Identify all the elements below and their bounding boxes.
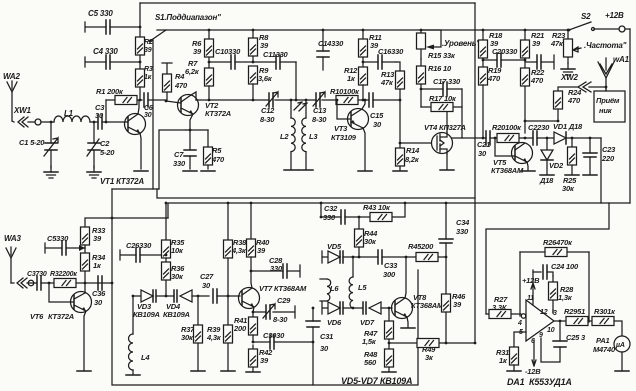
resistor R21 39	[521, 29, 545, 60]
capacitor C21 30	[477, 131, 490, 158]
svg-text:C21: C21	[477, 140, 490, 149]
node dot VD3 VD4	[165, 295, 168, 298]
wire pin12 R28	[552, 310, 554, 313]
svg-text:1,5к: 1,5к	[362, 337, 377, 346]
inductor L2	[280, 99, 295, 169]
capacitor C11 330	[253, 50, 296, 69]
svg-text:1,3к: 1,3к	[558, 293, 573, 302]
svg-text:М4740: М4740	[593, 345, 616, 354]
wire y218 to R33	[85, 218, 168, 227]
capacitor C13 8-30	[312, 92, 327, 124]
svg-text:C7: C7	[174, 150, 184, 159]
svg-text:8-30: 8-30	[312, 115, 327, 124]
svg-text:39: 39	[532, 39, 541, 48]
svg-text:VT4 КП327А: VT4 КП327А	[424, 123, 466, 132]
ground R5	[201, 170, 215, 172]
switch S2	[568, 12, 619, 31]
resistor R7 6,2k	[185, 59, 214, 101]
varicap VD3 KV109A	[133, 290, 166, 319]
node dot R3 bottom	[139, 99, 142, 102]
capacitor C29 8-30	[252, 296, 295, 324]
resistor R10 100k	[330, 87, 365, 105]
resistor R47 1,5k	[362, 308, 394, 346]
wire S1 select down	[152, 40, 154, 189]
svg-text:C36: C36	[92, 289, 106, 298]
ground R14	[393, 170, 407, 172]
resistor R28 1,3k	[549, 276, 575, 313]
svg-text:.Частота": .Частота"	[584, 41, 627, 50]
resistor R24 470	[554, 87, 583, 121]
resistor R20 100k	[492, 123, 526, 143]
wire VT3 emitter to ground	[363, 128, 365, 170]
svg-text:R2951: R2951	[564, 307, 585, 316]
wire C17 right drop	[461, 89, 463, 138]
svg-text:C2: C2	[100, 139, 110, 148]
svg-text:КТ368АМ: КТ368АМ	[491, 166, 524, 175]
node dot R47 R48	[388, 342, 391, 345]
svg-text:R15 33к: R15 33к	[428, 51, 456, 60]
svg-text:R26470к: R26470к	[543, 238, 573, 247]
capacitor C30 30	[253, 331, 313, 349]
svg-text:C10330: C10330	[215, 47, 241, 56]
svg-text:КВ109А: КВ109А	[163, 310, 190, 319]
node dot R8 R9	[252, 61, 255, 64]
node dot R34 bottom	[84, 282, 87, 285]
svg-text:КТ372А: КТ372А	[205, 109, 231, 118]
tuning arrows L2 L3	[294, 102, 307, 111]
wire output node	[554, 320, 568, 322]
wire pin5 R31	[514, 332, 526, 347]
svg-text:39: 39	[260, 356, 269, 365]
resistor R41 200	[233, 316, 258, 342]
label Уровень	[442, 39, 480, 48]
transistor VT4 KP327A	[424, 123, 466, 154]
svg-text:470: 470	[530, 76, 544, 85]
svg-text:µА: µА	[615, 342, 625, 349]
svg-text:VT1 КТ372А: VT1 КТ372А	[100, 177, 144, 186]
wire VT2 emitter down	[159, 130, 186, 189]
svg-text:R45200: R45200	[408, 242, 434, 251]
svg-text:XW2: XW2	[560, 73, 578, 82]
wire rail to opamp input	[486, 203, 609, 314]
resistor R6 39	[192, 29, 214, 68]
wire VT8 emitter ground	[407, 317, 408, 327]
svg-text:L5: L5	[358, 283, 367, 292]
svg-text:30к: 30к	[364, 237, 377, 246]
svg-text:5-20: 5-20	[100, 148, 115, 157]
wire VT3 collector	[362, 100, 365, 109]
svg-text:30: 30	[94, 298, 103, 307]
capacitor C17 330	[420, 77, 462, 96]
resistor R18 39	[479, 29, 504, 67]
resistor R14 8,2k	[396, 142, 421, 170]
connector XW2	[560, 73, 607, 92]
capacitor C24 100	[543, 262, 579, 279]
resistor R1 200k	[96, 87, 142, 105]
svg-text:330: 330	[270, 264, 283, 273]
box receiver Приёмник	[594, 87, 625, 122]
svg-text:C14330: C14330	[318, 39, 344, 48]
capacitor C1 5-20	[19, 122, 58, 168]
wire to VT2 base	[166, 101, 181, 103]
capacitor C3 30	[95, 103, 128, 129]
resistor R48 560	[364, 343, 396, 372]
wire x601 up	[600, 138, 602, 203]
resistor R9 3,6k	[249, 66, 273, 101]
antenna WA2	[3, 72, 20, 121]
transistor VT3 KT3109	[331, 109, 369, 143]
transistor VT2 KT372A	[178, 95, 232, 119]
svg-text:470: 470	[174, 81, 188, 90]
transistor VT8 KT368AM	[392, 293, 445, 319]
resistor R40 39	[247, 238, 271, 271]
svg-text:S2: S2	[581, 12, 591, 21]
capacitor C23 220	[583, 137, 616, 175]
wire VT4 drain up	[446, 111, 448, 132]
svg-text:4,3к: 4,3к	[231, 246, 247, 255]
wire C11 down	[295, 62, 297, 100]
svg-text:8,2к: 8,2к	[405, 155, 420, 164]
wire input	[28, 121, 54, 123]
ground C7	[183, 170, 197, 172]
resistor R49 3k	[389, 339, 476, 363]
svg-text:4,3к: 4,3к	[206, 333, 222, 342]
node dot C5	[139, 26, 142, 29]
svg-text:12: 12	[540, 309, 548, 316]
resistor R16 10	[417, 59, 453, 107]
resistor R5 470	[204, 130, 225, 169]
svg-text:3,6к: 3,6к	[258, 74, 273, 83]
svg-text:470: 470	[487, 74, 501, 83]
node dot box entry	[111, 282, 114, 285]
svg-text:30к: 30к	[171, 272, 184, 281]
node dot VT2 emitter	[189, 129, 192, 132]
svg-text:L4: L4	[141, 353, 150, 362]
svg-text:39: 39	[453, 300, 462, 309]
resistor R3 1k	[136, 66, 153, 87]
svg-text:C1 5-20: C1 5-20	[19, 138, 45, 147]
svg-text:39: 39	[144, 47, 152, 54]
svg-text:L2: L2	[280, 132, 289, 141]
resistor R37 30k	[181, 296, 205, 371]
wire left bias chain vertical	[139, 3, 141, 100]
svg-text:VD1 Д18: VD1 Д18	[553, 122, 583, 131]
svg-text:R10100к: R10100к	[330, 87, 360, 96]
node dot base tap	[48, 282, 51, 285]
wire VT5 emitter ground	[527, 162, 528, 170]
capacitor C20 330	[482, 47, 527, 67]
svg-text:VD5-VD7 КВ109А: VD5-VD7 КВ109А	[341, 376, 412, 386]
wire VT3 base	[337, 100, 351, 119]
resistor R38 4,3k	[224, 238, 248, 296]
svg-text:Д18: Д18	[539, 176, 554, 185]
svg-text:220: 220	[601, 154, 615, 163]
svg-text:.Уровень": .Уровень"	[442, 39, 480, 48]
wire rail drops into box	[166, 203, 251, 240]
svg-text:VD2: VD2	[549, 161, 564, 170]
capacitor C25 3	[541, 321, 586, 362]
svg-text:470: 470	[567, 96, 581, 105]
wire after L1	[90, 121, 98, 123]
svg-text:30: 30	[202, 281, 211, 290]
wire pin6 -12V	[525, 340, 541, 376]
svg-text:C15: C15	[370, 111, 384, 120]
resistor R25 30k	[562, 138, 579, 193]
svg-text:6,2к: 6,2к	[185, 67, 200, 76]
node dot R38 R39	[227, 295, 230, 298]
capacitor C36 30	[92, 276, 106, 307]
inductor L5	[349, 256, 367, 308]
svg-text:200: 200	[233, 324, 247, 333]
antenna WA1	[598, 55, 630, 91]
resistor R19 470	[479, 66, 503, 138]
wire to VT4 gate	[400, 100, 431, 143]
svg-text:R301к: R301к	[594, 307, 616, 316]
resistor R46 39	[442, 257, 467, 343]
wire y138 main	[452, 137, 601, 139]
ground C2	[87, 166, 101, 178]
capacitor C7 330	[173, 130, 196, 169]
wire VT6 base	[49, 283, 74, 302]
resistor R42 39	[246, 345, 273, 372]
svg-text:1к: 1к	[144, 74, 152, 81]
svg-text:-12В: -12В	[525, 367, 541, 376]
ground R23	[561, 63, 575, 75]
resistor R27 3,3k	[486, 295, 521, 319]
capacitor C34 330	[439, 202, 470, 257]
varicap VD4 KV109A	[163, 290, 209, 319]
svg-text:C27: C27	[200, 272, 214, 281]
svg-text:VD6: VD6	[327, 318, 342, 327]
svg-text:47к: 47к	[380, 78, 394, 87]
capacitor C16 330	[362, 47, 405, 69]
wire VT5 base	[495, 138, 515, 156]
terminal +12V	[605, 11, 630, 32]
capacitor C5 330 lower	[45, 234, 85, 255]
svg-text:R20100к: R20100к	[492, 123, 522, 132]
wire PLL box left/bottom/right	[112, 189, 418, 385]
ground L3	[299, 169, 313, 171]
svg-text:30: 30	[373, 120, 382, 129]
svg-text:C20330: C20330	[492, 47, 518, 56]
node dot R4 bottom	[165, 100, 168, 103]
wire VT1 collector	[138, 100, 139, 114]
svg-text:30к: 30к	[181, 333, 194, 342]
wire VT4 source ground	[446, 154, 448, 169]
capacitor C19 between dividers	[525, 55, 554, 69]
wire band-select bus	[157, 29, 569, 31]
node dot R41 R42	[252, 341, 255, 344]
svg-text:39: 39	[193, 47, 202, 56]
capacitor C32 330	[320, 202, 359, 224]
svg-text:10к: 10к	[171, 246, 184, 255]
resistor R12 1k	[344, 66, 368, 101]
node dot R6 R7	[208, 61, 211, 64]
wire main vertical x475	[474, 3, 476, 343]
inductor L6	[320, 279, 339, 301]
svg-text:VD5: VD5	[327, 242, 342, 251]
resistor R31 1k	[496, 347, 521, 371]
node dot C1 tap	[50, 121, 53, 124]
svg-text:DA1 К553УД1А: DA1 К553УД1А	[507, 377, 572, 387]
resistor R30 1k	[592, 307, 622, 336]
wire base node vertical	[105, 100, 107, 122]
resistor R17 10k	[421, 94, 462, 112]
capacitor C22 30	[528, 123, 550, 145]
transistor VT1 KT372A	[100, 114, 146, 187]
diode VD1 D18	[546, 122, 583, 144]
svg-text:R16 10: R16 10	[428, 64, 452, 73]
resistor R44 30k	[355, 217, 379, 257]
svg-text:C31: C31	[320, 332, 333, 341]
diode VD2 D18	[539, 138, 564, 185]
svg-text:Приём: Приём	[596, 96, 620, 105]
svg-text:4: 4	[517, 320, 522, 327]
capacitor C26 330	[120, 241, 166, 262]
svg-text:R14: R14	[406, 146, 420, 155]
capacitor C2 5-20	[87, 122, 115, 168]
svg-text:8-30: 8-30	[260, 115, 275, 124]
varicap VD5	[322, 242, 360, 263]
svg-text:С25 3: С25 3	[566, 333, 586, 342]
potentiometer R15 33k	[417, 29, 456, 60]
resistor R35 10k	[162, 238, 186, 258]
svg-text:XW1: XW1	[13, 106, 31, 115]
svg-text:330: 330	[173, 159, 186, 168]
svg-text:39: 39	[93, 234, 102, 243]
varicap VD7	[353, 302, 392, 327]
label DA1 K553UD1A	[507, 377, 572, 387]
svg-text:R5: R5	[212, 146, 222, 155]
resistor R43 10k	[358, 202, 407, 222]
switch S1	[149, 13, 222, 42]
svg-text:C26330: C26330	[126, 241, 152, 250]
potentiometer R23 47k	[550, 29, 581, 63]
capacitor C12 8-30	[260, 92, 278, 124]
svg-text:C2230: C2230	[528, 123, 550, 132]
resistor R11 39	[359, 29, 382, 67]
svg-text:S1.Поддиапазон": S1.Поддиапазон"	[155, 13, 221, 22]
svg-text:wА1: wА1	[613, 55, 630, 64]
resistor R22 470	[521, 60, 546, 121]
capacitor C31 30	[306, 307, 333, 385]
resistor R39 4,3k	[206, 296, 235, 371]
svg-text:30к: 30к	[562, 184, 575, 193]
capacitor C14 330	[317, 29, 344, 70]
capacitor C37 30	[27, 271, 49, 290]
wire collector line y100	[196, 99, 337, 101]
ground C1	[44, 166, 58, 178]
svg-text:C29: C29	[277, 296, 291, 305]
svg-text:C5 330: C5 330	[88, 9, 113, 18]
capacitor C33 300	[359, 250, 406, 279]
resistor R34 1k	[81, 248, 107, 283]
transistor VT7 KT368AM	[239, 284, 308, 309]
label Частота	[584, 41, 627, 50]
wire VT6 emitter down	[84, 311, 86, 370]
svg-text:R32200к: R32200к	[50, 271, 77, 278]
svg-text:L3: L3	[309, 132, 318, 141]
svg-text:VT3: VT3	[334, 124, 348, 133]
svg-text:300: 300	[383, 270, 396, 279]
wire feedback loop left	[519, 252, 521, 316]
node circle XW3	[28, 280, 34, 286]
resistor R13 47k	[380, 62, 405, 101]
svg-text:C24 100: C24 100	[551, 262, 579, 271]
wire y189 link	[112, 188, 159, 190]
svg-text:WA3: WA3	[4, 234, 21, 243]
svg-text:КВ109А: КВ109А	[133, 310, 160, 319]
ground VT1	[134, 170, 148, 172]
inductor L4	[126, 295, 150, 375]
svg-text:C23: C23	[602, 145, 616, 154]
svg-text:КТ3109: КТ3109	[331, 133, 357, 142]
connector XW3	[11, 278, 34, 288]
wire VT1 emitter to ground	[140, 133, 141, 169]
wire VT2 collector	[191, 92, 196, 100]
resistor R26 470k	[520, 238, 589, 257]
svg-text:39: 39	[257, 246, 266, 255]
svg-text:ник: ник	[599, 106, 613, 115]
transistor VT5 KT368AM	[491, 143, 533, 176]
svg-text:10: 10	[547, 327, 555, 334]
svg-text:VD7: VD7	[360, 318, 375, 327]
capacitor C5 330	[85, 9, 140, 34]
resistor R2 39	[136, 37, 153, 55]
svg-text:C33: C33	[384, 261, 398, 270]
wire rail1	[157, 189, 475, 198]
svg-text:+12В: +12В	[522, 276, 540, 285]
inductor L3	[302, 99, 319, 169]
wire VT7 emitter	[253, 307, 254, 317]
svg-text:30: 30	[478, 149, 487, 158]
node dot C4	[139, 61, 142, 64]
resistor R8 39	[249, 29, 270, 62]
resistor R32 200k	[49, 271, 112, 288]
antenna WA3	[4, 234, 21, 283]
resistor R29 51	[564, 307, 592, 326]
capacitor C10 330	[209, 47, 253, 69]
connector XW1	[12, 106, 31, 127]
svg-text:11: 11	[527, 295, 534, 302]
capacitor C4 330	[85, 47, 140, 69]
svg-text:47к: 47к	[550, 39, 564, 48]
svg-text:КТ372А: КТ372А	[48, 312, 74, 321]
transistor VT6 KT372A	[30, 292, 92, 322]
wire feedback loop right	[588, 252, 590, 322]
svg-text:WA2: WA2	[3, 72, 20, 81]
label VD5-VD7 KV109A	[341, 376, 412, 386]
resistor R36 30k	[162, 258, 186, 296]
resistor R33 39	[81, 226, 107, 248]
resistor R4 470	[162, 63, 188, 101]
node dot R35 R36	[165, 254, 168, 257]
node dot C2 tap	[93, 121, 96, 124]
svg-text:VT7 КТ368АМ: VT7 КТ368АМ	[259, 284, 307, 293]
svg-text:L6: L6	[330, 284, 339, 293]
wiper loop R15	[421, 30, 441, 47]
svg-text:330: 330	[456, 227, 469, 236]
svg-text:+12В: +12В	[605, 11, 624, 20]
wire top rail	[140, 2, 475, 4]
wire +12 right edge	[629, 29, 631, 203]
svg-text:VT6: VT6	[30, 312, 44, 321]
varicap VD6	[322, 302, 354, 327]
svg-text:PA1: PA1	[596, 336, 609, 345]
wire VT2 emitter	[190, 114, 193, 130]
svg-text:R4: R4	[175, 72, 185, 81]
wire VT8 collector	[405, 257, 406, 298]
